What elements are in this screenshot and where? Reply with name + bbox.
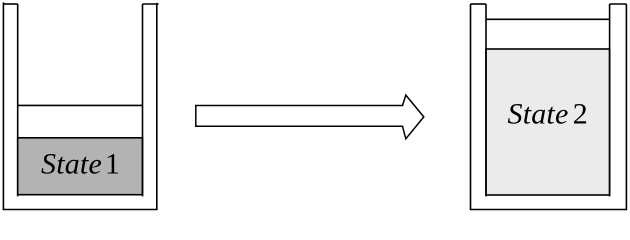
vessel V2 piston line [486,18,610,20]
svg-text:State2: State2 [508,97,588,130]
vessel V2 right wall cap [610,3,627,5]
vessel V2 state-2 fill [486,49,610,195]
arrow [196,95,424,139]
vessel V2 inner left wall [485,4,487,196]
vessel V2 inner right wall [609,4,611,196]
vessel V1 state-1 fill [18,138,143,195]
vessel V1 outer wall [3,2,156,209]
vessel V2 outer wall [471,4,627,210]
vessel V1 inner left wall [17,4,19,196]
vessel V1 piston line [18,104,143,106]
vessel V1 right wall cap [143,3,159,5]
vessel V1 inner right wall [142,4,144,196]
vessel V1 left wall cap [3,3,17,5]
vessel V2 left wall cap [471,3,487,5]
svg-text:State1: State1 [41,148,120,181]
